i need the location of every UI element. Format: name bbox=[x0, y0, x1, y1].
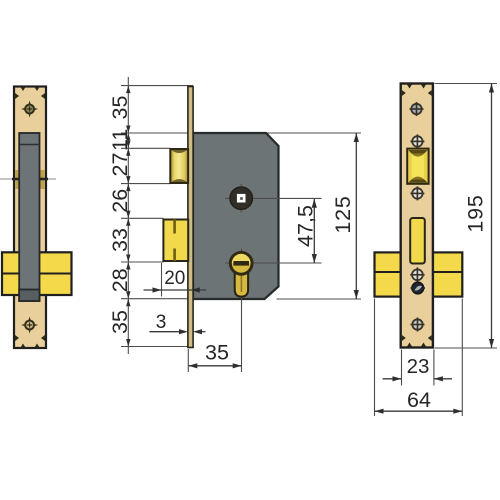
svg-text:3: 3 bbox=[156, 312, 167, 333]
svg-text:28: 28 bbox=[108, 268, 132, 292]
svg-text:20: 20 bbox=[164, 268, 185, 289]
svg-text:35: 35 bbox=[108, 310, 132, 334]
svg-text:26: 26 bbox=[108, 189, 132, 213]
svg-text:64: 64 bbox=[407, 388, 431, 412]
svg-text:11: 11 bbox=[108, 129, 132, 151]
svg-text:195: 195 bbox=[464, 194, 488, 232]
svg-text:35: 35 bbox=[205, 341, 229, 365]
svg-text:47,5: 47,5 bbox=[294, 205, 318, 247]
svg-text:27: 27 bbox=[108, 153, 132, 177]
svg-text:125: 125 bbox=[331, 195, 355, 233]
svg-text:23: 23 bbox=[407, 355, 430, 378]
svg-text:33: 33 bbox=[108, 228, 132, 252]
svg-text:35: 35 bbox=[108, 96, 132, 120]
